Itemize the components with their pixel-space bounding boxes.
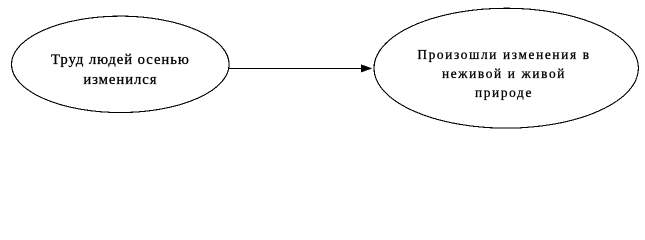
right oval label xyxy=(404,45,604,102)
left oval label xyxy=(20,51,220,91)
left oval shape xyxy=(12,16,230,112)
right oval shape xyxy=(374,8,638,128)
arrowhead xyxy=(361,64,372,72)
arrow connector wire xyxy=(229,67,363,69)
